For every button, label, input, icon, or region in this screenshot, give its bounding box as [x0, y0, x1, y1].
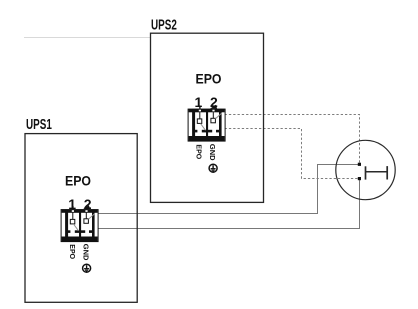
- EPO switch circle: [336, 140, 395, 199]
- svg-text:UPS2: UPS2: [151, 17, 177, 34]
- push-button actuator bar: [386, 166, 388, 179]
- svg-text:GND: GND: [82, 244, 91, 261]
- push-button actuator shaft: [366, 171, 388, 173]
- svg-text:EPO: EPO: [68, 244, 75, 259]
- svg-text:GND: GND: [208, 144, 217, 161]
- svg-text:EPO: EPO: [65, 173, 91, 189]
- UPS1 box: [25, 134, 137, 303]
- UPS2 EPO terminal block connector: [188, 105, 225, 142]
- UPS1 EPO terminal block connector: [61, 205, 98, 242]
- svg-text:EPO: EPO: [194, 144, 201, 159]
- UPS1 protective earth symbol: [83, 264, 91, 272]
- svg-text:1: 1: [195, 94, 203, 110]
- wire: UPS1 pin1 solid to switch upper contact: [90, 165, 358, 214]
- wire: UPS1 pin2 solid to switch lower contact: [92, 180, 360, 229]
- switch upper contact dot: [358, 163, 361, 166]
- UPS2 box: [151, 33, 264, 202]
- wire: UPS2 pin1 dashed to switch lower contact: [225, 129, 358, 179]
- faint page rule line: [24, 37, 151, 39]
- svg-text:EPO: EPO: [196, 71, 222, 87]
- svg-text:UPS1: UPS1: [26, 116, 52, 133]
- wire: UPS2 pin2 dashed to switch upper contact: [225, 115, 360, 163]
- switch lower contact dot: [358, 177, 361, 180]
- UPS2 protective earth symbol: [209, 164, 217, 172]
- push-button contact bridge bar: [365, 166, 367, 179]
